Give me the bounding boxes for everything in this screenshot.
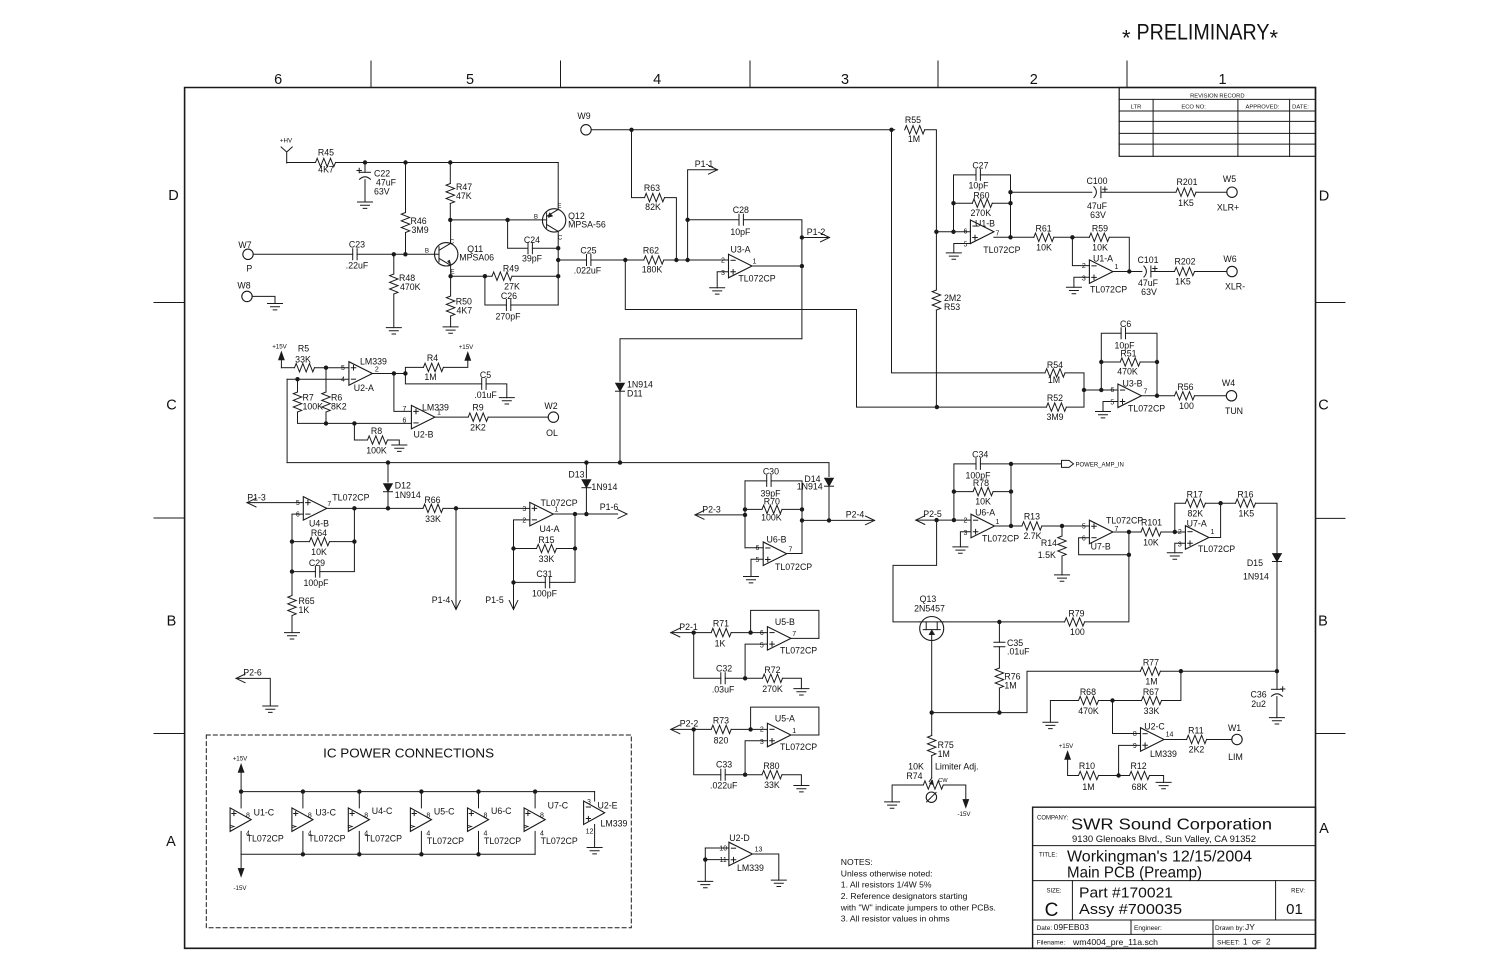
svg-text:R67: R67: [1143, 687, 1159, 697]
wire R48 lead: [393, 254, 395, 274]
svg-text:D13: D13: [568, 469, 584, 479]
wire C28 left: [688, 219, 739, 221]
wire R60 right: [992, 202, 1010, 204]
node R60 left: [951, 201, 955, 205]
wire C33 right: [725, 774, 745, 776]
svg-text:1M: 1M: [1048, 375, 1060, 385]
diode D13: [585, 463, 587, 478]
connector W1: [1232, 734, 1242, 744]
capacitor C32: [721, 673, 725, 684]
svg-text:P1-5: P1-5: [485, 595, 504, 605]
svg-text:JY: JY: [1245, 922, 1255, 932]
wire C101 to R202: [1151, 271, 1175, 273]
node R70 right: [800, 507, 804, 511]
svg-text:27K: 27K: [504, 281, 520, 291]
svg-text:+15V: +15V: [233, 755, 248, 762]
svg-text:-15V: -15V: [233, 885, 247, 892]
svg-text:REVISION RECORD: REVISION RECORD: [1190, 94, 1244, 100]
wire Q12 emitter to rail: [557, 163, 559, 210]
resistor R76: [995, 668, 1003, 688]
svg-text:C: C: [1045, 900, 1059, 921]
svg-text:1: 1: [1115, 264, 1119, 271]
svg-text:1M: 1M: [1145, 677, 1157, 687]
svg-text:100: 100: [1179, 401, 1194, 411]
svg-text:01: 01: [1286, 901, 1303, 918]
svg-text:3: 3: [760, 739, 764, 746]
resistor R101: [1141, 528, 1161, 536]
svg-text:.022uF: .022uF: [574, 266, 602, 276]
wire W8 to ground: [252, 296, 275, 303]
node R14 top: [1060, 524, 1064, 528]
resistor R8: [368, 436, 388, 444]
svg-text:2: 2: [760, 727, 764, 734]
node U3-A output: [800, 264, 804, 268]
capacitor C33: [721, 769, 725, 780]
svg-text:2: 2: [522, 517, 526, 524]
diode D12: [387, 463, 389, 482]
svg-text:1. All resistors 1/4W 5%: 1. All resistors 1/4W 5%: [841, 880, 932, 890]
svg-text:C: C: [1318, 397, 1328, 413]
svg-text:4K7: 4K7: [457, 305, 473, 315]
svg-text:10pF: 10pF: [968, 181, 989, 191]
wire R11 to W1: [1207, 738, 1232, 740]
row tick left D/C: [154, 302, 185, 304]
svg-text:TL072CP: TL072CP: [365, 834, 402, 844]
wire R201 to W5: [1196, 191, 1227, 193]
drawing border frame: [185, 88, 1316, 949]
svg-text:Limiter Adj.: Limiter Adj.: [935, 762, 979, 772]
svg-text:R63: R63: [644, 183, 660, 193]
svg-text:D11: D11: [627, 389, 643, 399]
svg-text:U3-A: U3-A: [730, 244, 750, 254]
svg-text:LTR: LTR: [1131, 105, 1142, 111]
capacitor C27: [976, 169, 980, 180]
svg-text:P2-1: P2-1: [679, 622, 698, 632]
svg-text:8: 8: [1133, 731, 1137, 738]
node P1-1 vertical: [685, 258, 689, 262]
svg-text:8K2: 8K2: [331, 402, 347, 412]
svg-text:R80: R80: [763, 761, 779, 771]
svg-text:33K: 33K: [425, 514, 441, 524]
jumper P2-6: [236, 674, 245, 683]
svg-text:XLR-: XLR-: [1225, 282, 1245, 292]
node P2-4 tee: [800, 518, 804, 522]
power +15V R5: [278, 352, 284, 361]
wire C31 right: [550, 514, 575, 582]
op-amp U1-A: [1089, 260, 1113, 284]
svg-text:P1-1: P1-1: [695, 159, 714, 169]
svg-text:5: 5: [1082, 524, 1086, 531]
svg-text:U5-A: U5-A: [775, 714, 795, 724]
wire U3-A pin3 ground: [717, 272, 728, 288]
wire R51 left: [1101, 361, 1120, 363]
node base junction R48: [392, 252, 396, 256]
svg-text:R54: R54: [1047, 360, 1063, 370]
svg-text:C32: C32: [716, 663, 732, 673]
wire emitter to R49: [451, 275, 492, 277]
node U2-D in: [703, 857, 707, 861]
node R7 top: [295, 377, 299, 381]
wire R63 to node: [665, 198, 677, 260]
svg-text:TITLE:: TITLE:: [1039, 852, 1057, 858]
wire R45 to rail: [336, 162, 559, 164]
capacitor C31: [545, 577, 549, 588]
node Q12 C25: [556, 258, 560, 262]
node D13 top: [584, 460, 588, 464]
resistor R7: [293, 392, 301, 412]
diode D11: [616, 383, 625, 391]
op-amp U6-B: [763, 542, 787, 566]
resistor R72: [763, 674, 783, 682]
node Q12 R49: [556, 274, 560, 278]
svg-text:10: 10: [719, 846, 727, 853]
svg-text:82K: 82K: [645, 202, 661, 212]
svg-text:9130 Glenoaks Blvd., Sun Valle: 9130 Glenoaks Blvd., Sun Valley, CA 9135…: [1072, 834, 1256, 844]
svg-text:R5: R5: [298, 344, 309, 354]
svg-text:U3-C: U3-C: [315, 808, 336, 818]
svg-text:2N5457: 2N5457: [914, 603, 945, 613]
wire U1-A pin3 ground: [1074, 277, 1090, 287]
svg-text:U1-B: U1-B: [975, 219, 995, 229]
svg-text:1K5: 1K5: [1238, 509, 1254, 519]
transistor Q12: [542, 209, 565, 232]
svg-text:LM339: LM339: [737, 863, 764, 873]
op-amp U1-C power: [240, 792, 242, 808]
svg-text:LM339: LM339: [601, 819, 628, 829]
wire C29 right: [320, 508, 355, 571]
svg-text:1: 1: [1243, 938, 1248, 947]
svg-text:P1-3: P1-3: [247, 493, 266, 503]
connector W5: [1227, 187, 1237, 197]
node R53 bottom: [935, 405, 939, 409]
svg-text:5: 5: [341, 365, 345, 372]
svg-text:U2-A: U2-A: [354, 383, 374, 393]
svg-text:U2-B: U2-B: [413, 429, 433, 439]
svg-text:33K: 33K: [295, 354, 311, 364]
wire U6-B output: [787, 553, 802, 555]
wire R68 ground lead: [1050, 701, 1078, 723]
svg-text:1N914: 1N914: [395, 490, 421, 500]
svg-text:1M: 1M: [938, 749, 950, 759]
ground U2-D out: [771, 880, 786, 886]
svg-text:R70: R70: [764, 496, 780, 506]
ground U6-B: [744, 577, 759, 583]
node C100 branch: [1008, 190, 1012, 194]
svg-text:MPSA06: MPSA06: [459, 253, 494, 263]
svg-text:+HV: +HV: [280, 138, 293, 145]
svg-text:12: 12: [586, 829, 594, 836]
svg-text:D15: D15: [1247, 558, 1263, 568]
wire R64 left: [292, 541, 310, 543]
wire C24 to collector: [532, 247, 558, 249]
svg-text:1.5K: 1.5K: [1038, 550, 1056, 560]
wire C32 left: [694, 633, 721, 679]
capacitor C23: [353, 249, 357, 260]
svg-text:1M: 1M: [424, 372, 436, 382]
ground U6-A: [953, 547, 968, 553]
wire U2-D inputs: [705, 847, 729, 849]
svg-text:39pF: 39pF: [522, 254, 543, 264]
svg-text:6: 6: [1082, 536, 1086, 543]
svg-text:3. All resistor values in ohms: 3. All resistor values in ohms: [841, 914, 950, 924]
wire R72 left: [745, 677, 762, 679]
connector W4: [1226, 391, 1236, 401]
IC power top bus: [241, 791, 594, 793]
svg-text:8: 8: [483, 813, 487, 820]
node U5-A fb top: [748, 727, 752, 731]
svg-text:D: D: [1319, 189, 1329, 205]
svg-text:B: B: [534, 213, 538, 220]
resistor R62: [644, 256, 664, 264]
wire R65 to ground: [291, 616, 293, 633]
svg-text:Filename:: Filename:: [1037, 939, 1066, 946]
wire R78 left: [954, 491, 973, 493]
wire U6-A fb left: [954, 464, 976, 520]
svg-text:1K5: 1K5: [1178, 198, 1194, 208]
wire U1-B input: [936, 231, 970, 233]
node D12 top: [386, 460, 390, 464]
node U3-B out: [1155, 394, 1159, 398]
wire U7-B output: [1113, 531, 1141, 533]
jumper P1-1: [688, 170, 718, 260]
ground R8: [392, 445, 407, 451]
wire R78 right: [993, 491, 1011, 493]
node C26 branch: [483, 274, 487, 278]
wire R56 to W4: [1195, 395, 1227, 397]
node W9 drop: [629, 128, 633, 132]
svg-text:2: 2: [1030, 72, 1038, 88]
svg-text:B: B: [167, 614, 177, 630]
op-amp U2-B: [411, 405, 435, 429]
svg-text:2: 2: [1082, 263, 1086, 270]
node P1-4 branch: [454, 506, 458, 510]
svg-text:R60: R60: [973, 190, 989, 200]
op-amp U2-C: [1141, 728, 1165, 752]
ground C5: [499, 398, 514, 404]
svg-text:TL072CP: TL072CP: [247, 834, 284, 844]
wire U7-A output: [1209, 503, 1221, 537]
ground under R48: [386, 328, 401, 334]
svg-text:C29: C29: [309, 558, 325, 568]
jumper P1-5: [509, 601, 518, 610]
pot R74 body: [923, 781, 943, 789]
wire C36 to ground: [1276, 697, 1278, 718]
svg-text:W5: W5: [1223, 174, 1236, 184]
resistor R60: [972, 199, 992, 207]
title block box: [1033, 807, 1316, 948]
svg-text:MPSA-56: MPSA-56: [568, 220, 606, 230]
svg-text:R51: R51: [1120, 349, 1136, 359]
svg-text:P2-5: P2-5: [923, 509, 942, 519]
svg-text:3: 3: [963, 530, 967, 537]
resistor R45: [316, 158, 336, 166]
svg-text:10K: 10K: [1036, 242, 1052, 252]
bus wire: [287, 462, 829, 464]
wire pin4 drop to bus: [286, 379, 288, 462]
svg-text:1N914: 1N914: [797, 482, 823, 492]
op-amp U2-D: [729, 842, 753, 866]
node C25 right: [623, 258, 627, 262]
svg-text:SWR Sound Corporation: SWR Sound Corporation: [1071, 817, 1272, 834]
connector W2: [548, 412, 558, 422]
row tick left B/A: [154, 733, 185, 735]
wire R17 vertical: [1175, 503, 1186, 532]
column tick 4|3: [749, 61, 751, 88]
svg-text:U2-E: U2-E: [598, 800, 618, 810]
transistor Q11: [435, 243, 458, 266]
svg-text:.022uF: .022uF: [710, 781, 738, 791]
wire R47 to node: [449, 204, 451, 220]
ground R80: [794, 786, 809, 792]
wire C28 right: [743, 220, 802, 339]
svg-text:A: A: [166, 834, 176, 850]
node P2-1 tee: [692, 630, 696, 634]
node C33 R80: [743, 773, 747, 777]
svg-text:U7-C: U7-C: [548, 800, 569, 810]
svg-text:TL072CP: TL072CP: [775, 562, 812, 572]
node U3-B fb left: [1099, 388, 1103, 392]
svg-text:1: 1: [792, 728, 796, 735]
resistor R201: [1176, 188, 1196, 196]
net POWER_AMP_IN: [1062, 460, 1074, 467]
column tick 3|2: [937, 61, 939, 88]
ground under C22: [358, 202, 373, 208]
svg-text:TL072CP: TL072CP: [983, 245, 1020, 255]
wire R62 to U3-A: [664, 259, 729, 261]
wire W9 drop to R63: [632, 130, 645, 198]
svg-text:2: 2: [1266, 938, 1271, 947]
svg-text:W1: W1: [1228, 723, 1241, 733]
wire U1-B pin5 ground: [954, 244, 971, 253]
svg-text:W6: W6: [1223, 254, 1236, 264]
svg-text:4: 4: [341, 377, 345, 384]
wire R76 to node: [998, 688, 1000, 713]
svg-text:R71: R71: [713, 619, 729, 629]
svg-text:C: C: [166, 398, 176, 414]
wire U5-A feedback: [751, 707, 819, 735]
wire U6-A pin3 ground: [960, 532, 971, 547]
connector W8: [242, 291, 252, 301]
svg-text:1N914: 1N914: [1243, 572, 1269, 582]
wire R67 up to R77: [1162, 671, 1181, 700]
wire R49 to collector node: [512, 275, 558, 277]
wire U4-B pin6: [292, 514, 303, 595]
resistor R75: [928, 736, 936, 756]
svg-text:3: 3: [1082, 276, 1086, 283]
resistor R6: [322, 392, 330, 412]
wire U2-C pin8: [1113, 701, 1141, 734]
svg-text:Date:: Date:: [1037, 925, 1053, 932]
node R17 drop: [1173, 530, 1177, 534]
node R15 right: [573, 546, 577, 550]
svg-text:C23: C23: [349, 239, 365, 249]
svg-text:Drawn by:: Drawn by:: [1215, 925, 1244, 932]
wire R51 right: [1140, 361, 1157, 363]
svg-text:U5-C: U5-C: [434, 807, 455, 817]
svg-text:R202: R202: [1174, 257, 1195, 267]
svg-text:C28: C28: [733, 205, 749, 215]
resistor R70: [762, 505, 782, 513]
resistor R9: [468, 413, 488, 421]
wire R13 to U7-B: [1042, 525, 1090, 527]
wire +15V to R5: [281, 367, 294, 369]
node C31 left: [511, 580, 515, 584]
svg-text:100K: 100K: [303, 402, 324, 412]
node Q12 C24: [556, 246, 560, 250]
svg-text:270K: 270K: [762, 684, 783, 694]
capacitor C22: [360, 171, 371, 173]
svg-text:U1-C: U1-C: [254, 808, 275, 818]
wire U2-B pin7: [394, 373, 412, 411]
wire R9 to W2: [488, 416, 548, 418]
svg-text:2: 2: [721, 257, 725, 264]
wire R73 to U5-A: [731, 728, 767, 730]
wire C25 to R62 node: [591, 259, 644, 261]
svg-text:7: 7: [792, 631, 796, 638]
svg-text:33K: 33K: [539, 554, 555, 564]
svg-text:C33: C33: [716, 760, 732, 770]
resistor R11: [1187, 735, 1207, 743]
wire U2-A out: [371, 372, 405, 374]
wire R61 to R59: [1054, 236, 1090, 238]
wire U1-B output: [994, 236, 1034, 238]
svg-text:1: 1: [1211, 529, 1215, 536]
svg-text:5: 5: [756, 557, 760, 564]
svg-text:U6-B: U6-B: [766, 535, 786, 545]
svg-text:5: 5: [964, 241, 968, 248]
svg-text:R61: R61: [1036, 223, 1052, 233]
op-amp U4-A: [530, 502, 554, 525]
svg-text:U5-B: U5-B: [775, 617, 795, 627]
svg-text:U6-A: U6-A: [975, 508, 995, 518]
svg-text:TL072CP: TL072CP: [982, 533, 1019, 543]
op-amp U6-A: [971, 514, 995, 538]
svg-text:3: 3: [522, 506, 526, 513]
resistor R12: [1130, 771, 1150, 779]
wire P2-5 to Q13 gate: [893, 520, 937, 622]
wire R16 down to D15: [1256, 503, 1278, 553]
svg-text:TL072CP: TL072CP: [1090, 284, 1127, 294]
wire R8 to ground: [388, 440, 400, 445]
svg-text:with "W" indicate jumpers to o: with "W" indicate jumpers to other PCBs.: [840, 903, 996, 913]
capacitor C29: [315, 566, 319, 577]
node R47 top: [448, 160, 452, 164]
svg-text:TL072CP: TL072CP: [1198, 544, 1235, 554]
resistor R54: [1045, 369, 1065, 377]
svg-text:TL072CP: TL072CP: [541, 498, 578, 508]
svg-text:Main PCB (Preamp): Main PCB (Preamp): [1067, 865, 1202, 882]
node R79 fb: [1127, 553, 1131, 557]
wire Q13 gate down: [931, 641, 933, 713]
wire C33 left: [694, 729, 721, 774]
wire R74 left to ground: [892, 785, 923, 802]
node R10 R12: [1116, 773, 1120, 777]
wire R5 to U2-A pin5: [315, 367, 349, 369]
ground under R50: [443, 327, 458, 333]
node C29 left: [290, 569, 294, 573]
diode D15: [1273, 554, 1282, 562]
svg-text:1M: 1M: [1004, 681, 1016, 691]
svg-text:.22uF: .22uF: [346, 260, 369, 270]
wire R53 to R52 line: [935, 310, 937, 407]
svg-text:1: 1: [1218, 72, 1226, 88]
wire C100 line: [1011, 191, 1092, 193]
node D14 bottom: [827, 518, 831, 522]
resistor R10: [1079, 771, 1099, 779]
svg-text:R55: R55: [905, 115, 921, 125]
svg-text:R56: R56: [1177, 382, 1193, 392]
svg-text:P2-4: P2-4: [846, 509, 865, 519]
